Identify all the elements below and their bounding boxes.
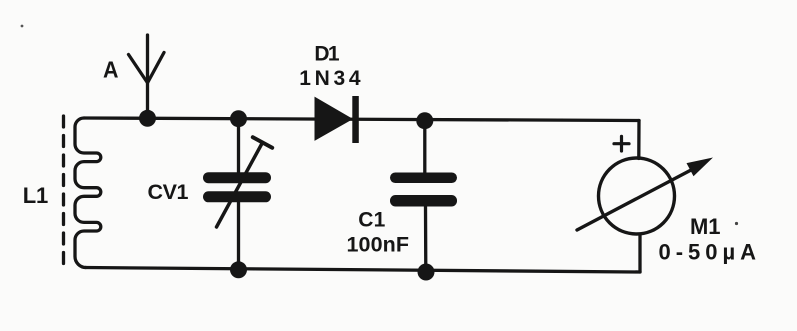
diode D1 cathode bar	[352, 96, 359, 143]
wire CV1 lower lead	[237, 203, 240, 271]
antenna right arm	[148, 53, 164, 83]
junction dot CV1 top	[230, 110, 247, 127]
wire top horizontal	[84, 118, 639, 121]
wire CV1 upper lead	[237, 119, 240, 172]
junction dot antenna/top wire	[139, 110, 156, 127]
capacitor C1 plate top	[390, 173, 457, 184]
wire C1 lower lead	[424, 207, 428, 273]
svg-text:C1: C1	[358, 209, 385, 232]
paper speck top-left	[21, 25, 24, 28]
svg-text:CV1: CV1	[148, 180, 189, 204]
meter plus sign	[614, 136, 629, 151]
CV1 adjustment arrow shaft	[217, 143, 263, 228]
capacitor C1 plate bottom	[390, 195, 457, 207]
wire C1 upper lead	[423, 121, 426, 173]
wire meter upper lead	[637, 121, 641, 159]
svg-text:100nF: 100nF	[347, 233, 410, 257]
antenna left arm	[129, 55, 148, 83]
CV1 adjustment arrow head bar	[253, 137, 272, 148]
meter M1 needle shaft	[577, 170, 692, 231]
junction dot C1 bottom	[418, 264, 435, 281]
variable capacitor CV1 plate bottom	[203, 191, 271, 202]
meter M1 body circle	[599, 158, 675, 234]
dashed coil form line	[62, 116, 65, 268]
junction dot CV1 bottom	[230, 261, 247, 278]
meter M1 needle arrowhead	[687, 158, 714, 177]
wire meter lower lead	[638, 234, 641, 272]
junction dot C1 top	[416, 112, 433, 129]
paper speck right	[735, 222, 738, 225]
diode D1 triangle	[315, 98, 352, 141]
antenna A mast	[146, 35, 149, 118]
svg-text:D1: D1	[314, 43, 340, 66]
svg-text:L1: L1	[23, 183, 49, 208]
inductor L1	[75, 118, 101, 268]
wire bottom horizontal	[85, 268, 640, 273]
svg-text:A: A	[103, 57, 119, 83]
svg-text:M1: M1	[690, 214, 721, 239]
variable capacitor CV1 plate top	[203, 172, 271, 183]
